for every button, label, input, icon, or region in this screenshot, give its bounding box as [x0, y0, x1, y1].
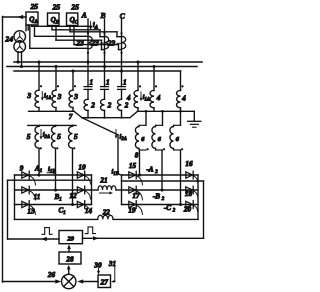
- svg-text:4: 4: [126, 93, 131, 102]
- svg-text:3: 3: [26, 91, 31, 100]
- svg-text:5: 5: [74, 132, 78, 141]
- svg-text:20: 20: [183, 205, 192, 213]
- svg-text:-B: -B: [153, 192, 160, 200]
- svg-text:10: 10: [78, 164, 86, 172]
- svg-text:17: 17: [132, 192, 140, 200]
- svg-text:19: 19: [128, 206, 136, 214]
- svg-text:-C: -C: [164, 204, 171, 212]
- svg-text:11: 11: [34, 193, 41, 201]
- svg-text:12: 12: [69, 192, 77, 200]
- svg-text:-A: -A: [146, 165, 153, 173]
- svg-text:29: 29: [66, 235, 74, 242]
- svg-text:5: 5: [27, 132, 31, 141]
- svg-text:2: 2: [161, 197, 165, 202]
- svg-text:B: B: [99, 11, 105, 20]
- svg-text:2: 2: [107, 102, 112, 110]
- svg-text:25: 25: [30, 2, 39, 11]
- svg-text:2: 2: [124, 102, 129, 110]
- svg-text:26: 26: [47, 271, 56, 279]
- svg-text:14: 14: [85, 207, 93, 215]
- svg-text:22: 22: [102, 208, 111, 216]
- svg-text:28: 28: [65, 256, 74, 264]
- svg-text:23: 23: [75, 39, 84, 48]
- svg-text:8: 8: [135, 151, 139, 159]
- svg-text:3: 3: [57, 92, 62, 101]
- svg-text:21: 21: [99, 177, 107, 185]
- svg-text:2: 2: [154, 170, 158, 175]
- svg-text:1: 1: [90, 79, 94, 87]
- svg-text:25: 25: [70, 2, 79, 11]
- svg-text:2: 2: [90, 102, 95, 110]
- svg-text:3: 3: [73, 92, 78, 101]
- svg-text:24: 24: [4, 35, 13, 44]
- svg-text:23: 23: [107, 39, 116, 48]
- svg-text:A: A: [81, 11, 87, 20]
- svg-text:13: 13: [27, 208, 35, 216]
- svg-text:30: 30: [93, 262, 102, 270]
- svg-text:7: 7: [69, 113, 73, 121]
- svg-text:27: 27: [100, 279, 109, 287]
- svg-text:1: 1: [123, 79, 127, 87]
- svg-text:1: 1: [106, 79, 110, 87]
- svg-text:4: 4: [181, 94, 186, 103]
- svg-text:25: 25: [52, 2, 61, 11]
- svg-text:5: 5: [57, 132, 61, 141]
- svg-text:9: 9: [20, 165, 24, 173]
- svg-text:18: 18: [185, 190, 193, 198]
- svg-text:2: 2: [172, 209, 176, 214]
- svg-text:23: 23: [90, 39, 99, 48]
- svg-text:4: 4: [156, 93, 161, 102]
- svg-text:15: 15: [129, 162, 137, 170]
- svg-text:16: 16: [185, 160, 193, 168]
